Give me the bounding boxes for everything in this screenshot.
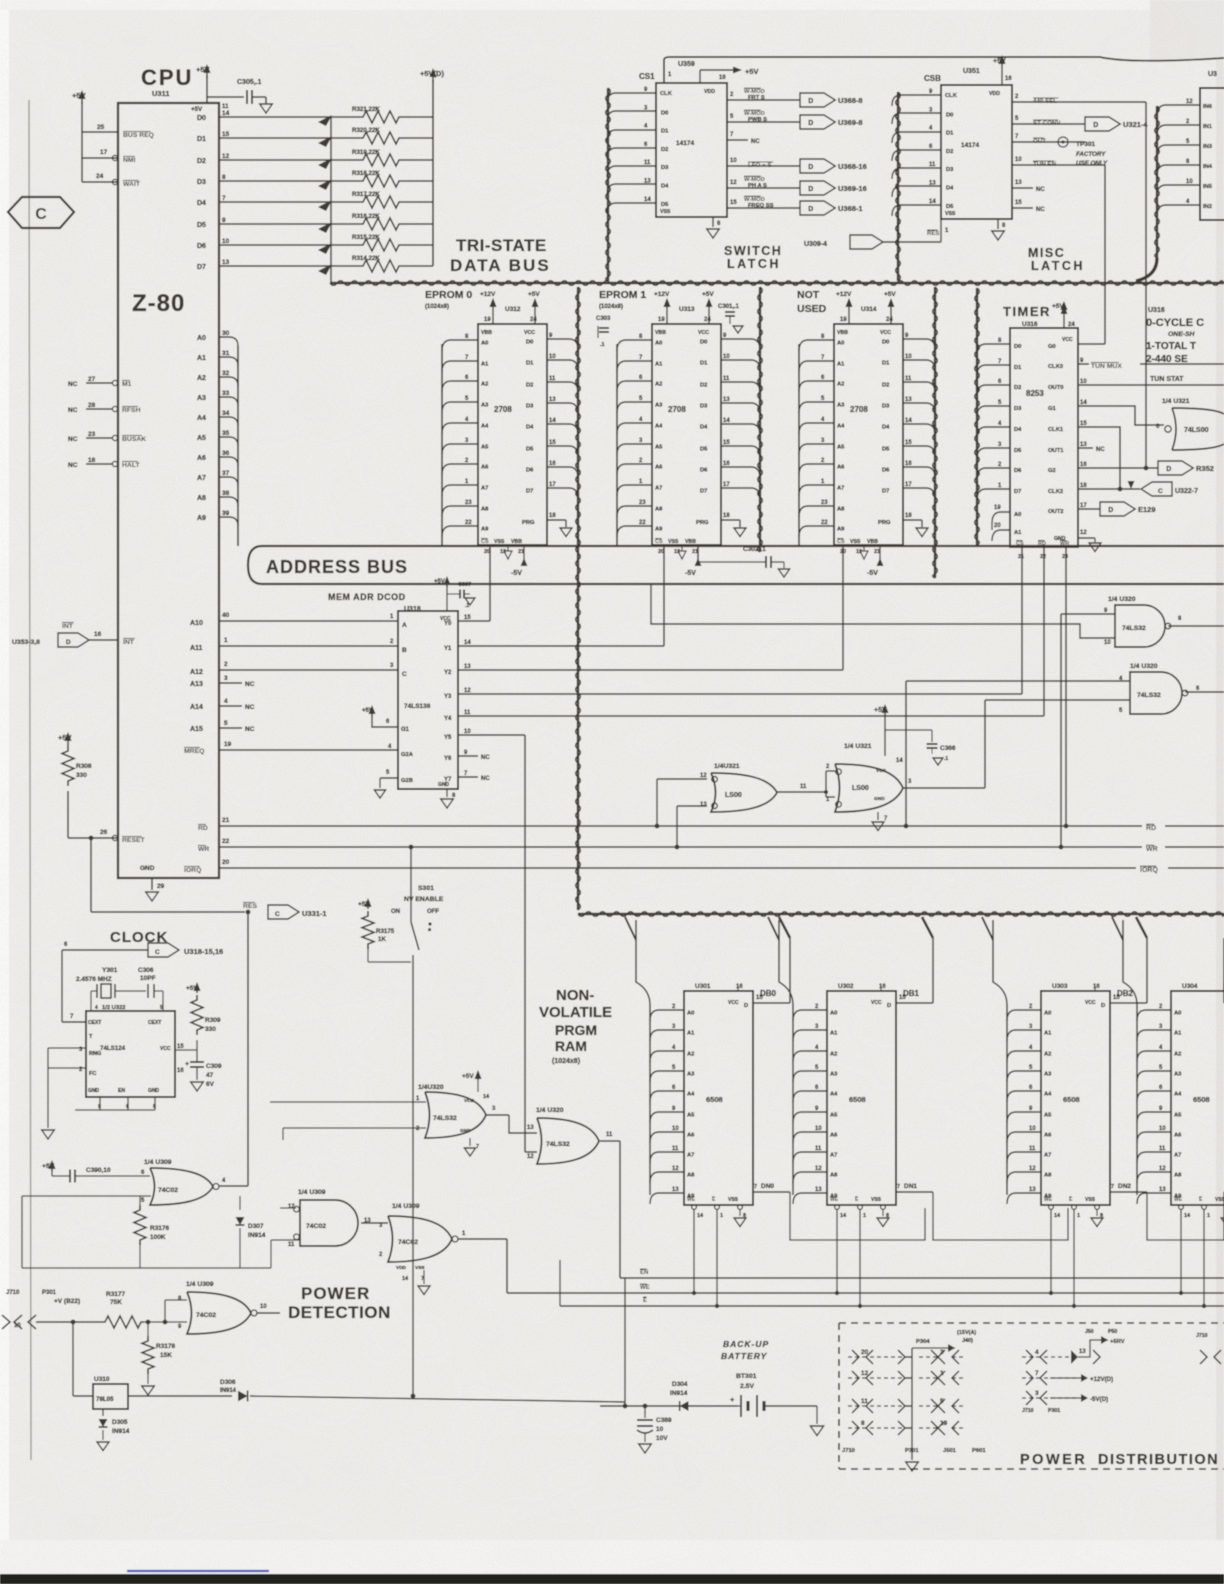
RAM U303 A6 pin 10 bbox=[1007, 1132, 1041, 1143]
wire CLK0 TUN MUX bbox=[1078, 363, 1089, 365]
RAM U304 A1 pin 3 bbox=[1137, 1030, 1171, 1041]
EPROM U313 CS wire to decoder bbox=[663, 545, 665, 646]
EPROM U314 D2 pin 11 bbox=[903, 382, 935, 393]
wire TUN EN to G0 bbox=[1078, 343, 1105, 345]
bus tap arrow bbox=[318, 158, 332, 169]
diode D305 IN914 bbox=[102, 1409, 104, 1416]
EPROM U312 address feed line bbox=[441, 344, 443, 546]
EPROM U313 D5 pin 15 bbox=[721, 446, 760, 457]
RAM U302 A7 pin 11 bbox=[793, 1152, 827, 1163]
RAM U303 A7 pin 11 bbox=[1007, 1152, 1041, 1163]
EPROM U314 CS wire to decoder bbox=[842, 545, 844, 670]
decoder G2B ground bbox=[380, 777, 398, 779]
EPROM U314 bottom pins CS VSS VBB bbox=[837, 538, 845, 545]
wire gate output pin 3 to U320 bbox=[903, 787, 985, 789]
RAM U302 address feed bbox=[792, 1005, 794, 1195]
pin Y6 NC bbox=[458, 755, 478, 757]
EPROM U314 A3 pin 5 bbox=[799, 402, 834, 413]
resistor R319 22K pull-up bbox=[358, 154, 402, 166]
EPROM U312 D6 pin 16 bbox=[547, 467, 578, 478]
RAM U303 A1 pin 3 bbox=[1007, 1030, 1041, 1041]
RAM U301 A6 pin 10 bbox=[650, 1132, 684, 1143]
EPROM U314 VBB -5V bbox=[879, 545, 881, 560]
wire U321b out to U320b pin 5 bbox=[985, 699, 1130, 701]
EPROM U312 VSS ground bbox=[504, 545, 512, 559]
wire gate inputs from +V bbox=[165, 1299, 187, 1301]
bus tap arrow bbox=[318, 115, 332, 126]
EPROM U314 A5 pin 3 bbox=[799, 444, 834, 455]
EPROM U314 D3 pin 13 bbox=[903, 403, 935, 414]
wire G1 to gate U321 bbox=[1078, 406, 1164, 425]
RAM U303 DN output bbox=[1110, 1191, 1147, 1193]
regulator U310 78L05 bbox=[72, 1322, 74, 1396]
EPROM U313 address feed line bbox=[616, 344, 618, 546]
data bus rope EPROM2 bbox=[934, 287, 936, 578]
connector group J710-P301 to P304 bbox=[848, 1356, 966, 1358]
RAM U304 A2 pin 4 bbox=[1137, 1051, 1171, 1062]
EPROM U313 D7 pin 17 bbox=[721, 488, 760, 499]
blue pen underline mark bbox=[127, 1570, 269, 1572]
RAM U302 A5 pin 9 bbox=[793, 1112, 827, 1123]
wire gate output pin 11 bbox=[777, 791, 826, 793]
RAM U304 A8 pin 12 bbox=[1137, 1172, 1171, 1183]
wire Y4 long select bbox=[458, 715, 1044, 717]
wire +5V(B) riser bbox=[1071, 1350, 1078, 1364]
RAM U302 A0 pin 2 bbox=[793, 1010, 827, 1021]
RAM U303 A2 pin 4 bbox=[1007, 1051, 1041, 1062]
wire CLK1 bbox=[1078, 427, 1120, 489]
RAM U304 A7 pin 11 bbox=[1137, 1152, 1171, 1163]
address pin bundle to bus bbox=[237, 346, 239, 546]
EPROM U313 A3 pin 5 bbox=[617, 402, 652, 413]
EPROM U314 A0 pin 8 bbox=[799, 340, 834, 351]
gate U320c ground bbox=[469, 1138, 471, 1146]
connector group right +5V +12V -5V bbox=[1022, 1356, 1076, 1358]
EPROM U313 VSS ground bbox=[678, 545, 686, 559]
latch input D3 pin 11 bbox=[892, 168, 941, 179]
bus tap arrow bbox=[318, 136, 332, 147]
latch input D2 pin 6 bbox=[607, 148, 656, 159]
EPROM U312 A4 pin 4 bbox=[442, 423, 478, 434]
pin Y7 NC bbox=[458, 776, 478, 778]
latch input D0 pin 3 bbox=[892, 113, 941, 124]
wire U309c out to WE line bbox=[458, 1238, 507, 1240]
oscillator U322 74LS124 box bbox=[86, 1011, 175, 1097]
address bus channel bbox=[248, 546, 1224, 584]
timer bottom pins CS RD WR bbox=[1016, 540, 1024, 547]
wire U309a out to RES node bbox=[219, 1185, 248, 1187]
latch U351 14174 box bbox=[941, 85, 1012, 219]
RAM U301 A9 pin 13 bbox=[650, 1193, 684, 1204]
data bus rope to EPROM outputs bbox=[577, 287, 579, 910]
wire U320d output to EN bbox=[600, 1140, 620, 1142]
EPROM U312 D1 pin 10 bbox=[547, 360, 578, 371]
resistor R315 22K pull-up bbox=[358, 239, 402, 251]
wire RD to gate pin 12 bbox=[655, 824, 660, 829]
timer A0 pin 19 bbox=[992, 512, 1010, 523]
wire -5V(D) bbox=[1050, 1397, 1082, 1399]
latch input D0 pin 3 bbox=[607, 111, 656, 122]
resistor R320 22K pull-up bbox=[358, 132, 402, 144]
RAM U303 D pin 15 bbox=[1110, 1002, 1147, 1004]
RAM U303 VSS ground bbox=[1096, 1209, 1098, 1216]
RAM U301 A7 pin 11 bbox=[650, 1152, 684, 1163]
latch U354 input IN5 pin 10 bbox=[1157, 185, 1200, 196]
RAM U301 A5 pin 9 bbox=[650, 1112, 684, 1123]
latch input D4 pin 13 bbox=[607, 184, 656, 195]
wire Y2 to EPROM2 CS bbox=[458, 669, 843, 671]
latch U354 input IN1 pin 2 bbox=[1157, 125, 1200, 136]
RAM U302 WE wire bbox=[836, 1209, 838, 1293]
RAM U303 A4 pin 6 bbox=[1007, 1091, 1041, 1102]
latch input CLK pin 9 bbox=[892, 95, 941, 106]
EPROM U313 A4 pin 4 bbox=[617, 423, 652, 434]
EPROM U313 A8 pin 23 bbox=[617, 506, 652, 517]
EPROM U314 A1 pin 7 bbox=[799, 361, 834, 372]
EPROM U312 A3 pin 5 bbox=[442, 402, 478, 413]
decoder U318 box bbox=[398, 611, 458, 789]
wire G2 to R352 flag bbox=[1078, 467, 1158, 469]
EPROM U312 bottom pins CS VSS VBB bbox=[481, 538, 489, 545]
rope taps to RAM data lines bbox=[779, 917, 790, 938]
timer GND pin 12 bbox=[1078, 537, 1095, 539]
flag C U322-7 to CLK2 bbox=[1078, 488, 1140, 490]
RAM U301 A2 pin 4 bbox=[650, 1051, 684, 1062]
data bus rope to switch latch bbox=[607, 88, 609, 281]
battery ground bbox=[816, 1406, 818, 1424]
EPROM U313 A1 pin 7 bbox=[617, 361, 652, 372]
RAM U301 WE wire bbox=[693, 1209, 695, 1293]
EPROM U312 D0 pin 9 bbox=[547, 339, 578, 350]
wire +12V(D) bbox=[1050, 1377, 1082, 1379]
latch input D2 pin 6 bbox=[892, 150, 941, 161]
data bus tap line bbox=[330, 117, 332, 283]
EPROM U313 D3 pin 13 bbox=[721, 403, 760, 414]
wire EN line bbox=[640, 1269, 648, 1276]
wire MREQ pin 19 to decoder G2A bbox=[184, 747, 204, 755]
RAM U302 A4 pin 6 bbox=[793, 1091, 827, 1102]
latch input D5 pin 14 bbox=[607, 203, 656, 214]
gate U321b ground pin 7 bbox=[877, 812, 879, 820]
data bus rope horizontal lower bbox=[578, 913, 1224, 915]
latch U359 14174 box bbox=[656, 83, 727, 217]
timer D7 pin 1 bbox=[977, 489, 1010, 500]
EPROM U313 VBB -5V bbox=[697, 545, 699, 560]
capacitor C389 10 10V bbox=[644, 1406, 646, 1418]
timer D5 pin 3 bbox=[977, 448, 1010, 459]
EPROM U314 A9 pin 22 bbox=[799, 526, 834, 537]
pin OUT1 NC bbox=[1078, 447, 1093, 449]
bus tap arrow bbox=[318, 243, 332, 254]
wire RES line bbox=[91, 911, 245, 913]
RAM U302 A6 pin 10 bbox=[793, 1132, 827, 1143]
EPROM U312 D2 pin 11 bbox=[547, 382, 578, 393]
diode D307 IN914 bbox=[239, 1196, 241, 1210]
data bus rope horizontal bbox=[330, 282, 1224, 284]
power distribution dashed box bbox=[839, 1323, 1224, 1469]
RAM U302 A1 pin 3 bbox=[793, 1030, 827, 1041]
timer D4 pin 4 bbox=[977, 427, 1010, 438]
RAM U303 A3 pin 5 bbox=[1007, 1071, 1041, 1082]
timer U316 8253 box bbox=[1010, 328, 1078, 547]
RAM U301 A0 pin 2 bbox=[650, 1010, 684, 1021]
latch input D1 pin 4 bbox=[892, 132, 941, 143]
wire RD pin 21 bbox=[198, 824, 208, 832]
RAM U304 E wire bbox=[1203, 1209, 1205, 1306]
timer D1 pin 7 bbox=[977, 365, 1010, 376]
latch input D3 pin 11 bbox=[607, 166, 656, 177]
latch U354 input IN2 pin 4 bbox=[1157, 205, 1200, 216]
node RES branch bbox=[89, 836, 94, 841]
wire U309a lower input bbox=[22, 1195, 151, 1197]
scan fold line bbox=[29, 100, 31, 1460]
data bus rope to U354 latch bbox=[1156, 106, 1158, 258]
EPROM U314 VSS ground bbox=[860, 545, 868, 559]
RAM U301 A8 pin 12 bbox=[650, 1172, 684, 1183]
wire Y0 to EPROM0 CS bbox=[458, 620, 490, 622]
RAM U304 A9 pin 13 bbox=[1137, 1193, 1171, 1204]
RAM U303 address feed bbox=[1006, 1005, 1008, 1195]
RAM U302 D pin 15 bbox=[896, 1002, 933, 1004]
RAM U304 A4 pin 6 bbox=[1137, 1091, 1171, 1102]
EPROM U313 D0 pin 9 bbox=[721, 339, 760, 350]
connector flag C bbox=[8, 197, 74, 228]
RAM U303 A8 pin 12 bbox=[1007, 1172, 1041, 1183]
gate U321 74LS00 one-shot bbox=[1172, 408, 1224, 450]
wire 440 SEL to timer G2 bbox=[1085, 101, 1146, 103]
EPROM U314 A2 pin 6 bbox=[799, 381, 834, 392]
P304 feed line bbox=[911, 1348, 913, 1460]
wire TUN EN to timer G0 bbox=[1085, 164, 1105, 166]
EPROM U314 D7 pin 17 bbox=[903, 488, 935, 499]
RAM U301 bottom pins WE E VSS bbox=[687, 1197, 696, 1203]
EPROM U313 A6 pin 2 bbox=[617, 464, 652, 475]
RAM U303 bottom pins WE E VSS bbox=[1044, 1197, 1053, 1203]
RAM U304 A0 pin 2 bbox=[1137, 1010, 1171, 1021]
EPROM U312 VBB -5V bbox=[523, 545, 525, 560]
wire Y5 to RAM gate bbox=[458, 734, 525, 736]
RAM U302 E wire bbox=[859, 1209, 861, 1306]
RAM U304 bottom pins WE E VSS bbox=[1174, 1197, 1183, 1203]
latch U354 input IN6 pin 12 bbox=[1157, 105, 1200, 116]
EPROM U313 D2 pin 11 bbox=[721, 382, 760, 393]
resistor R314 22K pull-up bbox=[358, 260, 402, 272]
EPROM U312 A9 pin 22 bbox=[442, 526, 478, 537]
EPROM U312 A8 pin 23 bbox=[442, 506, 478, 517]
EPROM U312 CS wire to decoder bbox=[489, 545, 491, 621]
diode D306 IN914 battery feed bbox=[128, 1395, 232, 1397]
timer D2 pin 6 bbox=[977, 385, 1010, 396]
resistor R3178 15K bbox=[147, 1322, 149, 1336]
EPROM U312 A1 pin 7 bbox=[442, 361, 478, 372]
RAM U302 A2 pin 4 bbox=[793, 1051, 827, 1062]
EPROM U314 A8 pin 23 bbox=[799, 506, 834, 517]
EPROM U314 D5 pin 15 bbox=[903, 446, 935, 457]
EPROM U313 D4 pin 14 bbox=[721, 424, 760, 435]
wire timer RD select bbox=[1065, 547, 1067, 826]
wire OUT0 TUN STAT bbox=[1078, 384, 1224, 386]
EPROM U313 A9 pin 22 bbox=[617, 526, 652, 537]
RAM U301 E wire bbox=[716, 1209, 718, 1306]
RAM U301 address feed bbox=[649, 1005, 651, 1195]
EPROM U313 bottom pins CS VSS VBB bbox=[655, 538, 663, 545]
wire bus enable to U320a pin 10 bbox=[651, 584, 1115, 638]
bus tap arrow bbox=[318, 200, 332, 211]
resistor R316 22K pull-up bbox=[358, 218, 402, 230]
wire RD to U320b pin 4 bbox=[904, 824, 909, 829]
timer D6 pin 2 bbox=[977, 468, 1010, 479]
RAM U302 A8 pin 12 bbox=[793, 1172, 827, 1183]
U322 ground pins bbox=[99, 1097, 101, 1110]
EPROM U312 D5 pin 15 bbox=[547, 446, 578, 457]
RAM U303 WE wire bbox=[1050, 1209, 1052, 1293]
wire IORQ pin 20 bbox=[184, 866, 201, 874]
wire WR to gate pin 13 bbox=[675, 845, 680, 850]
latch input D4 pin 13 bbox=[892, 186, 941, 197]
EPROM U312 A2 pin 6 bbox=[442, 381, 478, 392]
EPROM U312 A0 pin 8 bbox=[442, 340, 478, 351]
RAM U304 A5 pin 9 bbox=[1137, 1112, 1171, 1123]
RAM U304 A6 pin 10 bbox=[1137, 1132, 1171, 1143]
EPROM U312 D7 pin 17 bbox=[547, 488, 578, 499]
test point TP301 bbox=[1058, 137, 1068, 147]
EPROM U314 D6 pin 16 bbox=[903, 467, 935, 478]
EPROM U314 D1 pin 10 bbox=[903, 360, 935, 371]
bus tap arrow bbox=[318, 179, 332, 190]
wire Y1 to EPROM1 CS bbox=[458, 645, 664, 647]
wire Y3 to timer CS bbox=[458, 693, 1022, 695]
data bus rope to misc latch bbox=[897, 92, 899, 281]
resistor R318 22K pull-up bbox=[358, 175, 402, 187]
RAM U302 bottom pins WE E VSS bbox=[830, 1197, 839, 1203]
wire WR to U320a pin 9 bbox=[1059, 845, 1064, 850]
latch input D5 pin 14 bbox=[892, 205, 941, 216]
EPROM U314 A6 pin 2 bbox=[799, 464, 834, 475]
bus tap arrow bbox=[318, 264, 332, 275]
+5V pin 16 bbox=[699, 70, 701, 83]
latch input D1 pin 4 bbox=[607, 130, 656, 141]
EPROM U312 A7 pin 1 bbox=[442, 485, 478, 496]
capacitor C366 bbox=[885, 729, 932, 731]
resistor R321 22K pull-up bbox=[358, 111, 402, 123]
EPROM U312 D4 pin 14 bbox=[547, 424, 578, 435]
RAM U303 A9 pin 13 bbox=[1007, 1193, 1041, 1204]
RAM U302 DN output bbox=[896, 1191, 933, 1193]
resistor R317 22K pull-up bbox=[358, 196, 402, 208]
EPROM U314 A7 pin 1 bbox=[799, 485, 834, 496]
RAM U301 A3 pin 5 bbox=[650, 1071, 684, 1082]
RAM U302 A3 pin 5 bbox=[793, 1071, 827, 1082]
flag D E129 from OUT2 bbox=[1078, 508, 1100, 510]
EPROM U313 A5 pin 3 bbox=[617, 444, 652, 455]
EPROM U313 A2 pin 6 bbox=[617, 381, 652, 392]
RAM U304 address feed bbox=[1136, 1005, 1138, 1195]
EPROM U312 D3 pin 13 bbox=[547, 403, 578, 414]
EPROM U314 address feed line bbox=[798, 344, 800, 546]
RAM U301 VSS ground bbox=[739, 1209, 741, 1216]
RAM U303 A5 pin 9 bbox=[1007, 1112, 1041, 1123]
latch U354 input IN3 pin 5 bbox=[1157, 145, 1200, 156]
bus tap arrow bbox=[318, 222, 332, 233]
RAM U301 A1 pin 3 bbox=[650, 1030, 684, 1041]
RAM U303 E wire bbox=[1073, 1209, 1075, 1306]
cpu U311 Z-80 box bbox=[118, 103, 219, 878]
wire battery rail bbox=[624, 1278, 626, 1406]
ground pin 8 bbox=[712, 217, 714, 227]
timer D0 pin 8 bbox=[977, 344, 1010, 355]
wire WE line bbox=[640, 1284, 650, 1291]
wire U320a output bbox=[1168, 625, 1224, 627]
wire U309b out to U309c bbox=[361, 1222, 388, 1224]
decoder ground pin 8 bbox=[446, 789, 448, 797]
RAM U301 A4 pin 6 bbox=[650, 1091, 684, 1102]
RAM U301 D pin 15 bbox=[753, 1002, 790, 1004]
timer D3 pin 5 bbox=[977, 406, 1010, 417]
EPROM U313 A7 pin 1 bbox=[617, 485, 652, 496]
timer A1 pin 20 bbox=[992, 530, 1010, 541]
EPROM U314 A4 pin 4 bbox=[799, 423, 834, 434]
EPROM U313 D1 pin 10 bbox=[721, 360, 760, 371]
ground pin 8 bbox=[997, 219, 999, 229]
EPROM U313 D6 pin 16 bbox=[721, 467, 760, 478]
RAM U304 A3 pin 5 bbox=[1137, 1071, 1171, 1082]
EPROM U312 A5 pin 3 bbox=[442, 444, 478, 455]
RAM U304 WE wire bbox=[1180, 1209, 1182, 1293]
data bus rope EPROM1 bbox=[759, 287, 761, 552]
EPROM U312 A6 pin 2 bbox=[442, 464, 478, 475]
RAM U302 A9 pin 13 bbox=[793, 1193, 827, 1204]
latch U354 input IN4 pin 8 bbox=[1157, 165, 1200, 176]
RAM U302 VSS ground bbox=[882, 1209, 884, 1216]
latch input CLK pin 9 bbox=[607, 93, 656, 104]
wire U320c out to U320d bbox=[486, 1114, 509, 1116]
wire U320b output bbox=[1185, 691, 1224, 693]
bottom black scan bar bbox=[0, 1574, 1224, 1584]
wire WR pin 22 bbox=[198, 845, 209, 853]
RAM U303 A0 pin 2 bbox=[1007, 1010, 1041, 1021]
EPROM U314 D4 pin 14 bbox=[903, 424, 935, 435]
EPROM U313 A0 pin 8 bbox=[617, 340, 652, 351]
resistor R3176 100K bbox=[134, 1205, 146, 1245]
RAM U301 DN output bbox=[753, 1191, 790, 1193]
EPROM U314 D0 pin 9 bbox=[903, 339, 935, 350]
data bus rope to timer bbox=[976, 288, 978, 545]
wire E line bbox=[643, 1297, 647, 1304]
